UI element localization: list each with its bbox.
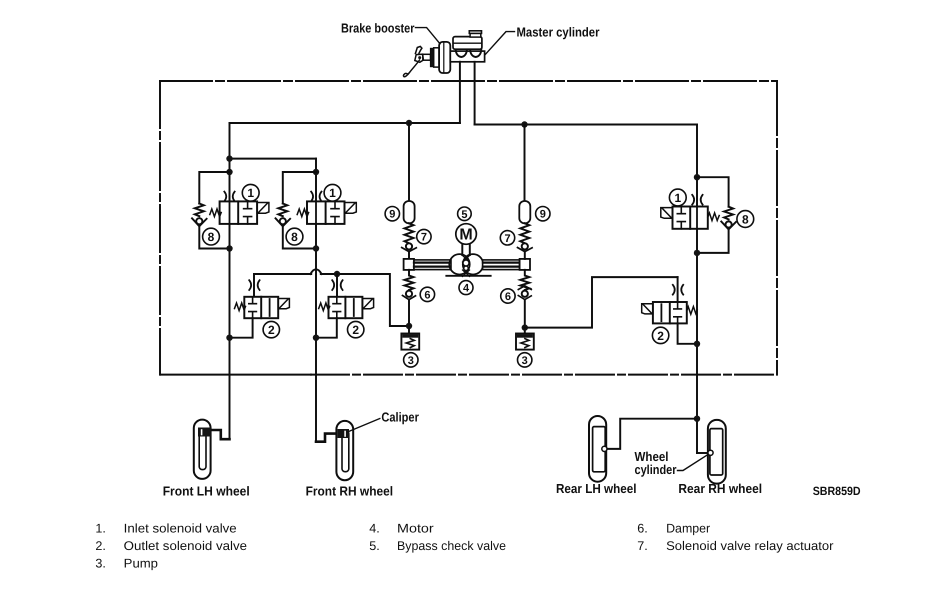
inlet solenoid valve 1 LH body	[220, 201, 258, 224]
valve 1 LH spring	[210, 209, 221, 217]
rear LH branch pipe	[607, 419, 697, 449]
svg-text:1.: 1.	[95, 522, 106, 536]
orifice above inlet valve LH	[224, 192, 234, 202]
svg-text:8: 8	[208, 230, 215, 244]
svg-text:5: 5	[461, 209, 467, 221]
wire into pump right	[524, 252, 526, 259]
brake booster body	[439, 42, 450, 73]
rear bypass wire top	[697, 177, 729, 207]
reservoir port hump left	[456, 49, 467, 57]
svg-text:7.: 7.	[637, 539, 648, 553]
node rear bypass top	[694, 174, 700, 180]
inlet solenoid valve 1 RH body	[307, 201, 345, 224]
valve 2 LH output wire	[230, 318, 253, 338]
svg-text:7: 7	[421, 232, 427, 244]
pump piston bar right	[483, 260, 520, 270]
rear bypass wire bottom	[697, 229, 729, 253]
pump 3 left box	[401, 334, 419, 350]
check valve spring 8a	[195, 204, 204, 217]
booster flange	[434, 48, 439, 67]
svg-text:6: 6	[505, 291, 511, 303]
circled 1 LH	[242, 184, 259, 201]
svg-text:5.: 5.	[369, 539, 380, 553]
rear LH drum	[593, 427, 606, 472]
wire into pump left	[408, 252, 410, 259]
circled 7 right	[500, 231, 514, 245]
svg-text:cylinder: cylinder	[635, 462, 677, 477]
damper seat left	[403, 296, 416, 300]
valve 2 rear spring	[687, 307, 697, 315]
rear suction line	[525, 277, 678, 328]
circled 1 rear	[669, 189, 686, 206]
node outlet LH output	[226, 335, 232, 341]
pump piston bar left	[414, 260, 451, 270]
label Rear RH wheel	[678, 481, 762, 496]
svg-text:Motor: Motor	[397, 522, 434, 536]
node front feed to pump column	[406, 120, 412, 126]
orifice above inlet valve RH	[311, 192, 321, 202]
svg-text:SBR859D: SBR859D	[813, 484, 861, 498]
check valve seat 8b	[276, 218, 291, 226]
circled 3 left	[404, 353, 418, 367]
circled 8 rear	[737, 211, 754, 228]
valve 1 rear solenoid	[661, 208, 673, 219]
label Rear LH wheel	[556, 481, 637, 496]
circled 1 RH	[324, 184, 341, 201]
damper spring right	[520, 270, 529, 290]
reservoir	[453, 37, 482, 50]
outlet solenoid valve 2 RH body	[329, 297, 363, 318]
label Brake booster	[341, 20, 415, 35]
reservoir port hump right	[470, 49, 481, 57]
valve 1 LH closed symbol	[244, 201, 252, 224]
circled 3 right	[518, 353, 532, 367]
valve 1 LH solenoid	[257, 203, 269, 214]
rear RH drum	[710, 429, 723, 475]
svg-text:Bypass check valve: Bypass check valve	[397, 539, 506, 553]
orifice above outlet valve RH	[332, 280, 342, 290]
bypass check spring left	[405, 223, 414, 243]
check valve spring 8b	[278, 204, 287, 217]
motor M circle	[456, 224, 477, 245]
svg-text:2: 2	[352, 323, 359, 337]
valve 2 LH pass line	[269, 299, 271, 316]
node rear branch	[694, 416, 700, 422]
node outlet RH output	[313, 335, 319, 341]
node bypass top LH	[226, 169, 232, 175]
valve 1 RH spring	[297, 209, 308, 217]
svg-text:Caliper: Caliper	[381, 409, 419, 424]
crank detail	[463, 256, 470, 263]
rear feed header	[475, 124, 697, 126]
svg-text:Damper: Damper	[666, 522, 710, 536]
valve 2 RH solenoid	[362, 299, 373, 309]
valve 1 rear spring	[708, 213, 719, 221]
bypass wire top LH	[199, 172, 229, 204]
label Master cylinder	[517, 24, 600, 39]
motor ground line	[446, 275, 490, 277]
svg-text:2: 2	[657, 329, 664, 343]
front LH wheel tyre	[194, 420, 211, 479]
circled 6 right	[501, 289, 515, 303]
svg-text:4.: 4.	[369, 522, 380, 536]
clevis body	[415, 54, 424, 62]
svg-text:Pump: Pump	[124, 557, 158, 571]
svg-text:Outlet solenoid valve: Outlet solenoid valve	[124, 539, 247, 553]
front LH caliper pipe	[211, 430, 230, 439]
circled 9 right	[536, 207, 550, 221]
pump cylinder right	[520, 259, 530, 270]
damper ball left	[406, 291, 412, 297]
bypass check seat left	[402, 248, 417, 252]
damper seat right	[518, 286, 531, 300]
node bypass top RH	[313, 169, 319, 175]
damper spring left	[405, 270, 414, 290]
inlet solenoid valve 1 rear body	[673, 207, 708, 229]
valve 2 rear closed symbol	[674, 302, 682, 323]
front feed header	[230, 122, 460, 124]
node front RH branch	[226, 155, 232, 161]
label Wheel cylinder	[635, 449, 677, 477]
rear RH wheel tyre	[708, 420, 726, 484]
svg-text:2.: 2.	[95, 539, 106, 553]
outlet valve 2 RH input wire	[336, 274, 338, 297]
circled 8 RH	[286, 228, 303, 245]
check valve spring 8c	[724, 207, 733, 220]
valve 2 LH closed symbol	[249, 297, 257, 318]
circled 6 left	[420, 287, 434, 301]
label SBR859D	[813, 484, 861, 498]
svg-text:4: 4	[463, 283, 470, 295]
suction line right segment	[321, 274, 409, 326]
bypass check spring right	[520, 223, 529, 243]
svg-text:9: 9	[389, 209, 395, 221]
circled 2 LH	[263, 321, 279, 337]
circled 7 left	[417, 229, 431, 243]
motor shaft	[462, 244, 470, 255]
node pump suction left	[406, 323, 412, 329]
svg-text:Rear LH wheel: Rear LH wheel	[556, 481, 637, 496]
valve 2 rear solenoid	[642, 304, 653, 314]
valve 2 rear pass line	[660, 304, 662, 321]
svg-text:Solenoid valve relay actuator: Solenoid valve relay actuator	[666, 539, 833, 553]
svg-text:8: 8	[291, 230, 298, 244]
front RH main line	[315, 159, 317, 442]
clevis pivot	[418, 56, 421, 59]
svg-text:Front LH wheel: Front LH wheel	[163, 483, 250, 498]
outlet valve 2 LH input wire	[253, 274, 255, 297]
front LH disc	[199, 428, 206, 469]
rear LH wheel tyre	[589, 416, 606, 482]
rear outlet valve input wire	[677, 277, 679, 302]
wire pump suction right	[524, 300, 526, 334]
label Caliper	[381, 409, 419, 424]
svg-text:3.: 3.	[95, 557, 106, 571]
svg-text:Inlet solenoid valve: Inlet solenoid valve	[124, 522, 237, 536]
damper ball right	[522, 291, 528, 297]
svg-text:6.: 6.	[637, 522, 648, 536]
orifice above rear inlet valve	[692, 195, 702, 205]
circled 2 rear	[652, 327, 668, 343]
node rear bypass bottom	[694, 250, 700, 256]
pipe from master cylinder secondary	[474, 62, 476, 125]
node rear feed to pump column	[521, 121, 527, 127]
check valve seat 8a	[192, 218, 207, 226]
svg-text:Front RH wheel: Front RH wheel	[306, 483, 394, 498]
valve 2 RH closed symbol	[333, 297, 341, 318]
outlet solenoid valve 2 rear body	[653, 302, 687, 323]
leader master cylinder	[485, 32, 515, 55]
motor eccentric left lobe	[449, 254, 469, 274]
valve 1 RH solenoid	[345, 203, 357, 214]
front RH branch header	[230, 158, 317, 160]
node bypass bottom RH	[313, 245, 319, 251]
right column wire	[524, 125, 526, 202]
bypass wire top RH	[283, 172, 316, 204]
node outlet RH input	[334, 271, 340, 277]
front LH caliper	[198, 428, 211, 437]
left column wire	[408, 123, 410, 201]
valve 2 LH solenoid	[278, 299, 289, 309]
clevis fork	[415, 46, 422, 53]
master cylinder body	[450, 51, 484, 62]
rear LH wheel cylinder	[602, 446, 607, 451]
node pump suction right	[522, 324, 528, 330]
front RH caliper pipe	[316, 434, 338, 442]
node bypass bottom LH	[226, 245, 232, 251]
bypass check ball right	[522, 243, 528, 249]
check valve ball 8a	[196, 218, 202, 224]
bypass wire bottom LH	[199, 226, 229, 248]
circled 8 LH	[203, 228, 220, 245]
valve 1 RH closed symbol	[331, 201, 339, 224]
svg-text:Master cylinder: Master cylinder	[517, 24, 600, 39]
motor eccentric right lobe	[463, 254, 483, 274]
rear RH wheel pipe	[697, 452, 709, 454]
circled 2 RH	[348, 321, 364, 337]
circled 5	[458, 207, 472, 221]
svg-text:1: 1	[329, 186, 336, 200]
circled 9 left	[385, 207, 399, 221]
bypass check ball left	[406, 243, 412, 249]
front LH main line	[229, 123, 231, 439]
valve 2 RH pass line	[353, 299, 355, 316]
label Front LH wheel	[163, 483, 250, 498]
svg-text:Brake booster: Brake booster	[341, 20, 415, 35]
orifice above rear outlet valve	[673, 285, 683, 295]
front RH caliper	[338, 429, 350, 438]
outlet solenoid valve 2 LH body	[244, 297, 278, 318]
rear main line	[696, 125, 698, 454]
accumulator 9 right	[519, 201, 530, 223]
svg-text:1: 1	[247, 186, 254, 200]
svg-text:2: 2	[268, 323, 275, 337]
label Front RH wheel	[306, 483, 394, 498]
rear RH wheel cylinder	[708, 450, 713, 455]
leader brake booster	[416, 28, 441, 44]
check valve seat 8c	[721, 222, 736, 230]
reservoir cap	[470, 33, 481, 37]
node rear outlet output	[694, 341, 700, 347]
valve 2 rear output wire	[678, 323, 697, 343]
leader caliper	[348, 419, 380, 433]
actuator unit boundary (chain-line box)	[160, 81, 777, 375]
hop over front RH main	[311, 269, 322, 274]
wire pump suction left	[408, 300, 410, 334]
brake pedal rod	[404, 60, 420, 77]
svg-text:9: 9	[540, 209, 546, 221]
valve 2 RH spring	[319, 303, 330, 311]
svg-text:1: 1	[674, 191, 681, 205]
bypass wire bottom RH	[283, 226, 316, 248]
front RH wheel tyre	[336, 421, 353, 480]
svg-text:6: 6	[424, 289, 430, 301]
accumulator 9 left	[404, 201, 415, 223]
suction line left segment	[254, 273, 311, 275]
booster pushrod	[423, 54, 431, 60]
valve 2 RH output wire	[316, 318, 337, 338]
booster flange dark	[431, 48, 434, 66]
svg-text:M: M	[459, 227, 472, 244]
pipe from master cylinder primary	[459, 62, 461, 123]
bypass check seat right	[518, 248, 533, 252]
check valve ball 8b	[280, 218, 286, 224]
svg-text:8: 8	[742, 212, 749, 226]
leader wheel cylinder	[678, 455, 708, 471]
front RH disc	[342, 431, 349, 472]
orifice above outlet valve LH	[249, 280, 259, 290]
pump cylinder left	[404, 259, 414, 270]
valve 1 rear closed symbol	[677, 207, 685, 229]
valve 2 LH spring	[235, 303, 246, 311]
svg-text:7: 7	[504, 233, 510, 245]
pump 3 right box	[516, 334, 534, 350]
svg-text:3: 3	[408, 355, 414, 367]
circled 4	[459, 281, 473, 295]
svg-text:3: 3	[522, 355, 528, 367]
svg-text:Rear RH wheel: Rear RH wheel	[678, 481, 762, 496]
check valve ball 8c	[726, 221, 732, 227]
